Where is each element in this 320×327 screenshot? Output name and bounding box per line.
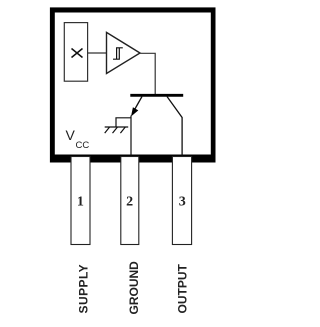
svg-text:V: V xyxy=(66,127,76,143)
svg-text:GROUND: GROUND xyxy=(127,261,141,315)
svg-text:3: 3 xyxy=(179,195,186,210)
svg-text:SUPPLY: SUPPLY xyxy=(77,264,91,314)
svg-text:CC: CC xyxy=(76,140,90,151)
svg-text:2: 2 xyxy=(126,195,133,210)
svg-text:OUTPUT: OUTPUT xyxy=(176,264,190,314)
svg-text:1: 1 xyxy=(77,195,84,210)
